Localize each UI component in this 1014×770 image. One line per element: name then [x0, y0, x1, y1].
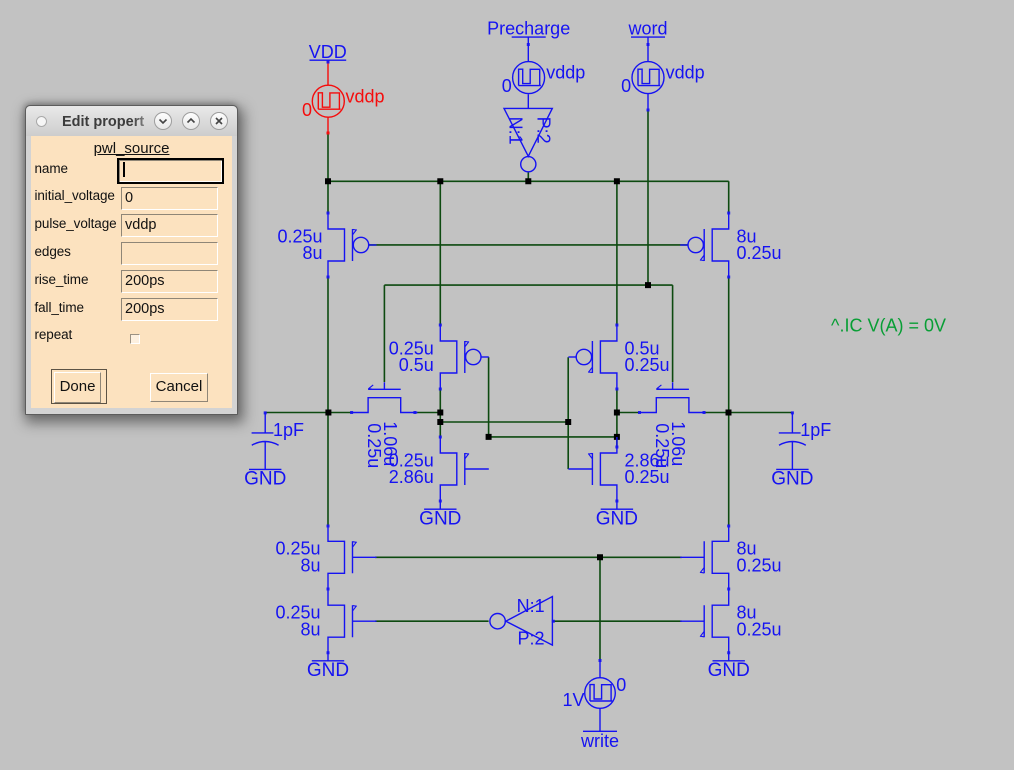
svg-text:N:1: N:1 — [517, 596, 545, 616]
svg-text:GND: GND — [596, 508, 638, 529]
svg-text:0.5u: 0.5u — [399, 355, 434, 375]
svg-text:2.86u: 2.86u — [389, 467, 434, 487]
svg-text:GND: GND — [419, 508, 461, 529]
svg-text:1V: 1V — [562, 690, 584, 710]
svg-text:N:1: N:1 — [505, 117, 525, 145]
svg-text:0: 0 — [302, 100, 312, 120]
svg-text:0.25u: 0.25u — [625, 467, 670, 487]
svg-text:vddp: vddp — [666, 63, 705, 83]
svg-text:8u: 8u — [302, 243, 322, 263]
svg-text:1pF: 1pF — [800, 420, 831, 440]
svg-text:0.25u: 0.25u — [737, 619, 782, 639]
svg-text:Precharge: Precharge — [487, 18, 570, 38]
svg-text:GND: GND — [771, 469, 813, 490]
svg-text:0.25u: 0.25u — [737, 243, 782, 263]
svg-text:^.IC V(A) = 0V: ^.IC V(A) = 0V — [831, 316, 946, 336]
svg-text:0: 0 — [502, 76, 512, 96]
svg-text:GND: GND — [708, 660, 750, 681]
svg-text:vddp: vddp — [546, 63, 585, 83]
svg-text:0.25u: 0.25u — [364, 423, 384, 468]
svg-text:8u: 8u — [300, 619, 320, 639]
svg-text:0.25u: 0.25u — [737, 556, 782, 576]
svg-text:1pF: 1pF — [273, 420, 304, 440]
svg-text:0.25u: 0.25u — [652, 423, 672, 468]
svg-text:8u: 8u — [300, 556, 320, 576]
svg-text:GND: GND — [244, 469, 286, 490]
svg-text:0: 0 — [616, 675, 626, 695]
svg-text:VDD: VDD — [309, 42, 347, 62]
svg-text:write: write — [580, 731, 619, 751]
svg-text:GND: GND — [307, 660, 349, 681]
svg-text:0: 0 — [621, 76, 631, 96]
svg-text:P:2: P:2 — [533, 117, 553, 144]
svg-text:0.25u: 0.25u — [625, 355, 670, 375]
svg-text:vddp: vddp — [346, 86, 385, 106]
svg-text:word: word — [627, 18, 667, 38]
svg-text:P:2: P:2 — [518, 629, 545, 649]
